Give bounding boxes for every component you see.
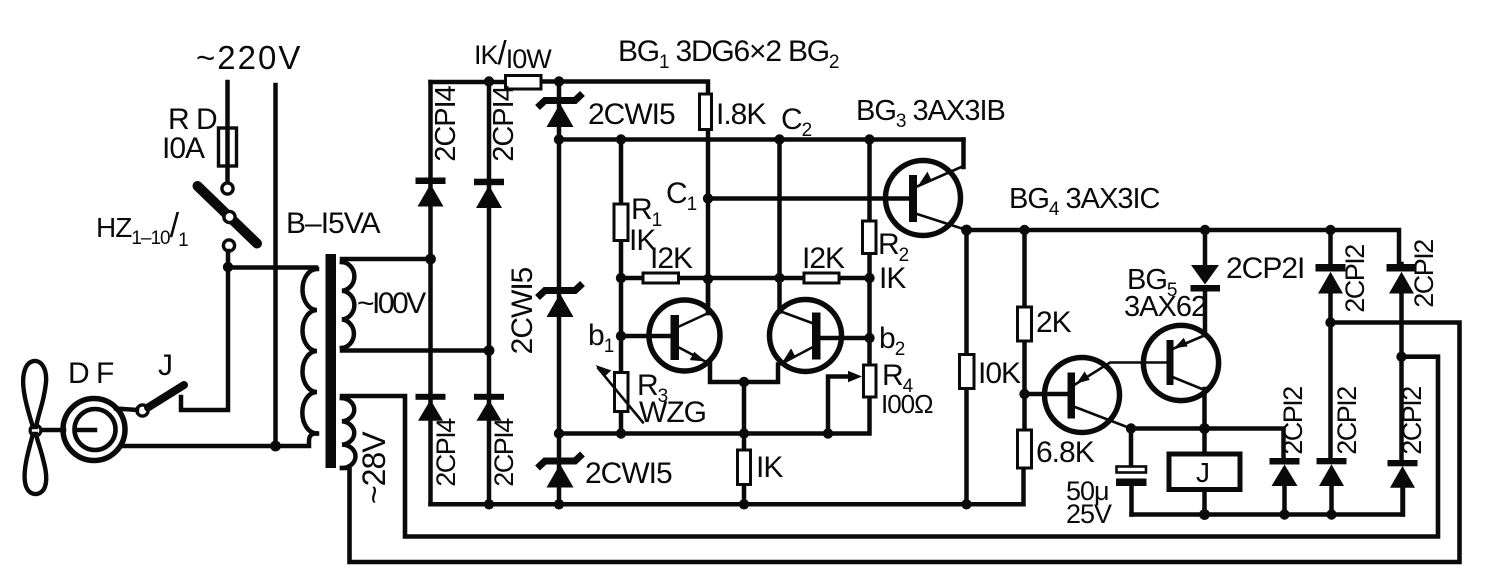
junction 869.5,338 (864, 333, 874, 343)
junction 228,267 (223, 262, 233, 272)
zener 2CW15 middle (506, 267, 583, 354)
wire secondary 28V top lead to bottom bus 1 (342, 357, 1438, 537)
junction 708,198.5 (703, 193, 713, 203)
junction 869.5,278 (864, 273, 874, 283)
svg-text:2CPI4: 2CPI4 (489, 418, 519, 487)
capacitor 50u 25V (1129, 429, 1134, 467)
zener 2CW15 top (538, 94, 676, 132)
resistor 2K column (1022, 230, 1027, 430)
switch HZ1-10/1 contact bottom (223, 240, 234, 251)
resistor R1 1K column (619, 140, 624, 434)
svg-text:~I00V: ~I00V (357, 287, 426, 320)
junction 1330.5,230 (1325, 225, 1335, 235)
svg-text:2CPI2: 2CPI2 (1340, 245, 1370, 313)
svg-text:2CWI5: 2CWI5 (585, 457, 672, 490)
wire 220V right lead (273, 85, 278, 446)
svg-text:2CPI2: 2CPI2 (1278, 387, 1308, 455)
wire motor to 220V right / primary bottom (122, 434, 316, 447)
svg-text:J: J (158, 349, 172, 382)
junction 744,382 (739, 377, 749, 387)
wire zener column (557, 82, 562, 505)
potentiometer R4 100 ohm (864, 365, 877, 397)
motor DF inner tick (78, 428, 95, 433)
transistor BG5 (1143, 325, 1218, 452)
wire rectifier column A (1331, 230, 1332, 515)
svg-text:D F: D F (68, 357, 114, 390)
wire relay node line (1131, 429, 1284, 459)
svg-text:2CP2I: 2CP2I (1226, 252, 1304, 285)
svg-text:I.8K: I.8K (716, 98, 766, 131)
wire node A down to relay contact J (181, 267, 228, 410)
diode 2CP12 B bottom (1388, 460, 1418, 466)
svg-text:2CPI4: 2CPI4 (488, 85, 520, 161)
wire DC- bottom rail (431, 468, 1024, 504)
wire BG4 base line (1025, 392, 1068, 397)
junction 559,139.5 (554, 134, 564, 144)
junction 559,81.5 (554, 76, 564, 86)
resistor 12K right (804, 273, 839, 283)
diode 2CP14 top-right (474, 179, 504, 186)
svg-text:BG3 3AX3IB: BG3 3AX3IB (856, 95, 1005, 132)
svg-text:~28V: ~28V (356, 431, 392, 504)
wire regulated rail (559, 137, 964, 142)
diode 2CP14 bottom-left (416, 394, 446, 400)
junction 779.5,139.5 (774, 134, 784, 144)
diode 2CP14 top-left (416, 178, 446, 185)
wire secondary 100V bottom lead (342, 348, 489, 351)
wire 220V left lead (225, 82, 230, 182)
junction 621,139.5 (616, 134, 626, 144)
diode 2CP12 freewheel (1270, 458, 1300, 465)
junction 559,433.5 (554, 428, 564, 438)
transformer B core (326, 254, 337, 468)
svg-text:2CPI4: 2CPI4 (430, 85, 462, 161)
transformer secondary 100V winding (342, 262, 354, 348)
svg-text:6.8K: 6.8K (1036, 436, 1095, 469)
svg-text:25V: 25V (1066, 499, 1112, 529)
svg-text:WZG: WZG (639, 396, 706, 429)
svg-text:2K: 2K (1036, 306, 1072, 339)
junction 1204.5,514.5 (1199, 509, 1210, 520)
wire switch to node A (226, 251, 231, 267)
junction 489,81.5 (484, 76, 494, 86)
switch J blade (148, 385, 184, 408)
wire cross-coupling 12K line (621, 276, 870, 281)
svg-text:2CPI4: 2CPI4 (431, 418, 461, 487)
motor DF outer circle (63, 399, 125, 461)
wire b2 base line (821, 336, 870, 341)
transformer primary winding (302, 269, 317, 434)
transistor BG1 (649, 279, 744, 382)
junction 1205,230 (1200, 225, 1210, 235)
switch HZ1-10/1 contact top (222, 183, 233, 194)
diode 2CP12 A bottom (1317, 458, 1347, 464)
wire secondary 100V top lead (342, 259, 431, 262)
junction 1131,428.5 (1126, 423, 1136, 433)
switch J contact circle (137, 405, 148, 416)
svg-text:IK: IK (756, 451, 783, 484)
motor DF inner circle (75, 409, 116, 450)
wire bridge column 1 (428, 82, 433, 504)
junction 559,504.3 (554, 499, 564, 509)
transistor BG2 (744, 300, 842, 383)
relay J coil (1169, 454, 1240, 490)
junction 621,278 (616, 273, 626, 283)
junction 869.5,139.5 (864, 134, 874, 144)
wire motor to switch J (116, 409, 137, 411)
fuse RD 10A (219, 128, 237, 166)
junction 1284.5,514.5 (1279, 509, 1289, 519)
resistor R2 1K column (867, 140, 872, 367)
svg-text:~220V: ~220V (196, 39, 302, 76)
fan hub (30, 425, 41, 436)
junction 430.5,259 (425, 254, 436, 265)
diode 2CP21 (1203, 230, 1208, 265)
transistor BG4 (1045, 358, 1167, 433)
wire rectifier column B (1402, 264, 1403, 515)
wire node A to transformer primary top (228, 265, 316, 270)
transformer secondary 28V winding (342, 398, 356, 468)
wire output + rail from BG3 collector (967, 230, 1400, 264)
svg-text:2CWI5: 2CWI5 (506, 267, 539, 354)
svg-text:BG4 3AX3IC: BG4 3AX3IC (1009, 183, 1160, 220)
diode 2CP14 bottom-right (474, 394, 504, 400)
resistor 12K left (643, 273, 679, 283)
resistor 1K emitter column (742, 382, 747, 504)
wire output - rail (1132, 488, 1404, 515)
fan blade upper (23, 361, 46, 427)
svg-text:I0A: I0A (162, 132, 205, 165)
thermistor R3 WZG (615, 373, 629, 412)
junction 779.5,278 (774, 273, 784, 283)
svg-text:2CPI2: 2CPI2 (1397, 387, 1427, 455)
junction 621,336 (616, 331, 626, 341)
resistor 6.8K (1018, 430, 1032, 468)
svg-text:I2K: I2K (802, 242, 845, 275)
transistor BG3 (886, 140, 967, 236)
svg-text:IK: IK (879, 262, 906, 295)
junction 1024.5,394 (1019, 389, 1029, 399)
wire secondary 28V bottom lead to bottom bus 2 (342, 323, 1460, 563)
junction 489,504.3 (484, 499, 494, 509)
svg-text:2CPI2: 2CPI2 (1332, 387, 1362, 455)
junction 1401.5,356.7 (1396, 352, 1406, 362)
svg-text:I0K: I0K (978, 357, 1021, 390)
diode 2CP12 B top (1387, 264, 1417, 272)
junction 1024.5,230 (1019, 225, 1029, 235)
junction 708,279 (703, 274, 713, 284)
wire b1 base line (621, 334, 671, 339)
zener 2CW15 bottom (538, 454, 673, 490)
svg-text:I00Ω: I00Ω (881, 389, 933, 419)
fan shaft (40, 428, 64, 433)
junction 828,433.5 (823, 428, 833, 438)
resistor 1.8K with column to C1 and 12K line (706, 129, 711, 313)
junction 489,350.5 (484, 345, 495, 356)
wire bridge column 2 (487, 82, 492, 505)
fan blade lower (25, 434, 47, 494)
junction 1330.5,322.5 (1325, 317, 1335, 327)
wire lower bias rail (559, 397, 870, 434)
junction 1331.5,514.5 (1326, 509, 1336, 519)
svg-text:BG1 3DG6×2 BG2: BG1 3DG6×2 BG2 (618, 35, 839, 73)
junction 966.5,230 (961, 225, 972, 236)
diode 2CP12 A top (1316, 264, 1346, 272)
resistor 1K/10W (506, 76, 542, 90)
junction 621,433.5 (616, 428, 626, 438)
svg-text:B–I5VA: B–I5VA (286, 207, 380, 240)
resistor 10K column (964, 230, 969, 504)
switch HZ1-10/1 blade (198, 186, 258, 244)
svg-text:I2K: I2K (650, 242, 693, 275)
junction 744,433.5 (739, 428, 749, 438)
wire DC+ top rail with corner to 1.8K (431, 82, 709, 95)
wire C2 column (BG2 collector to rail) (777, 140, 782, 312)
junction 744,504.3 (739, 499, 749, 509)
junction 275.5,446 (270, 441, 281, 452)
svg-text:2CWI5: 2CWI5 (588, 98, 675, 131)
junction 966.5,504.3 (961, 499, 971, 509)
svg-text:2CPI2: 2CPI2 (1409, 240, 1439, 308)
junction 1204.5,428.5 (1199, 423, 1210, 434)
svg-text:J: J (1196, 457, 1210, 488)
switch HZ1-10/1 contact middle (224, 211, 235, 222)
svg-text:3AX62: 3AX62 (1124, 291, 1206, 323)
